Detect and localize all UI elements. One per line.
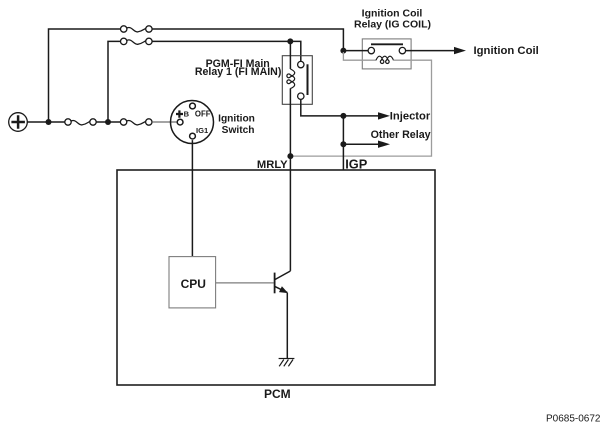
- battery B+ terminal: [9, 113, 28, 132]
- node B junction: [105, 119, 111, 125]
- fuse F3: [121, 26, 153, 32]
- node E junction (injector feed): [340, 113, 346, 119]
- arrow to Other Relay: [378, 141, 390, 148]
- wire fuse F1 to node B: [96, 121, 108, 123]
- node D junction (row2 to relay coil): [287, 38, 293, 44]
- node G junction MRLY: [287, 153, 293, 159]
- wire node A to fuse F1: [49, 121, 65, 123]
- wire IGP: node F down into PCM: [342, 144, 344, 170]
- fuse F4: [121, 38, 153, 44]
- relay K1 contact: bottom pin: [298, 93, 304, 99]
- svg-text:Ignition Coil: Ignition Coil: [474, 45, 539, 57]
- wire CPU output to transistor base: [216, 282, 274, 284]
- relay K1 coil (wire from node D through loops, down to MRLY node): [289, 41, 291, 69]
- node C junction (IG COIL relay feed): [340, 48, 346, 54]
- wire row1: node A up and right to fuse F3: [49, 29, 121, 122]
- relay K2 contact blade: [371, 43, 403, 45]
- ground symbol: [279, 359, 295, 367]
- wire node E to Injector arrow: [343, 115, 379, 117]
- node F junction (other relay feed): [340, 141, 346, 147]
- PCM box: [117, 170, 435, 385]
- wire fuse F3 to IG COIL relay feed, down to node C: [152, 29, 343, 51]
- svg-text:Other Relay: Other Relay: [371, 129, 431, 141]
- svg-text:CPU: CPU: [181, 277, 206, 291]
- svg-text:Ignition: Ignition: [218, 113, 255, 124]
- svg-text:IGP: IGP: [345, 156, 368, 171]
- fuse F1: [65, 119, 96, 125]
- transistor Q1 base bar: [274, 273, 276, 294]
- wire node B to fuse F2: [108, 121, 120, 123]
- wire ignition switch IG1 down to CPU: [191, 140, 193, 256]
- relay K2 coil: [376, 56, 394, 63]
- wire node C to relay K2 left pin: [343, 50, 368, 52]
- wire relay K1 output down and right to node E: [301, 99, 344, 116]
- svg-text:OFF: OFF: [195, 109, 211, 118]
- wire MRLY into PCM to transistor collector: [289, 156, 291, 271]
- relay K1 contact blade: [307, 64, 309, 95]
- ignition switch terminal OFF: [190, 103, 196, 109]
- gray wire relay K2 coil to MRLY node (right, down, left): [293, 60, 432, 156]
- fuse F2: [120, 119, 152, 125]
- svg-text:Relay (IG COIL): Relay (IG COIL): [354, 18, 431, 30]
- svg-text:B: B: [184, 109, 190, 118]
- gray wire node C to relay K2 coil: [343, 52, 376, 60]
- wire row2: node B up and right to fuse F4: [108, 41, 121, 122]
- wire fuse F2 to ignition switch +B terminal: [152, 121, 177, 123]
- wire fuse F4 to FI MAIN relay (coil node D and contact): [152, 41, 301, 61]
- svg-text:PCM: PCM: [264, 387, 291, 401]
- svg-text:Switch: Switch: [222, 125, 255, 136]
- ignition switch terminal IG1: [190, 133, 196, 139]
- relay K2 contact: left pin: [368, 47, 374, 53]
- svg-text:Relay 1 (FI MAIN): Relay 1 (FI MAIN): [195, 66, 282, 78]
- node A junction: [46, 119, 52, 125]
- ignition switch S1 body: [171, 101, 214, 144]
- relay K2 contact: right pin: [399, 47, 405, 53]
- wire relay K2 output to Ignition Coil arrow: [406, 50, 455, 52]
- label +B: [176, 110, 183, 117]
- svg-text:Injector: Injector: [390, 110, 431, 122]
- relay K1 contact: top pin: [298, 61, 304, 67]
- relay K2 IG COIL box: [362, 39, 411, 69]
- arrow to Ignition Coil: [454, 47, 466, 54]
- relay K1 PGM-FI Main box: [282, 56, 312, 105]
- svg-text:P0685-0672: P0685-0672: [546, 413, 601, 424]
- wire node E down to node F: [342, 116, 344, 144]
- wire battery to node A: [27, 121, 48, 123]
- svg-text:IG1: IG1: [196, 126, 209, 135]
- ignition switch terminal +B: [177, 119, 183, 125]
- transistor Q1 collector: [275, 271, 291, 280]
- CPU box U1: [169, 257, 216, 308]
- transistor Q1 emitter with arrow: [275, 286, 288, 292]
- arrow to Injector: [378, 112, 390, 119]
- wire node F to Other Relay arrow: [343, 143, 379, 145]
- wire emitter to ground: [286, 293, 288, 359]
